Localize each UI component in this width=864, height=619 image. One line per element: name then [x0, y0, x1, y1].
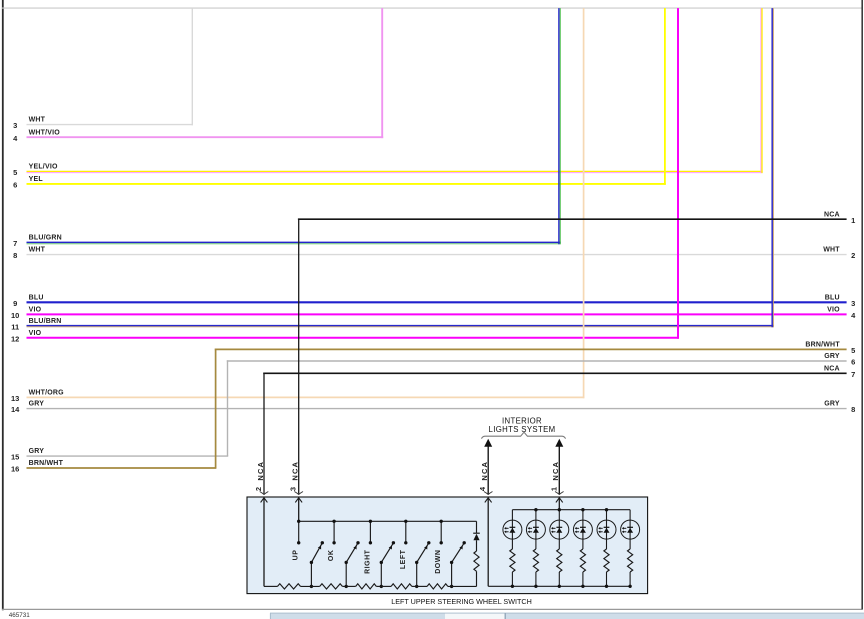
svg-text:VIO: VIO	[29, 307, 42, 314]
svg-text:WHT/ORG: WHT/ORG	[29, 390, 65, 397]
svg-text:13: 13	[11, 394, 19, 403]
svg-text:NCA: NCA	[480, 461, 489, 481]
svg-text:NCA: NCA	[291, 461, 300, 481]
svg-text:465731: 465731	[9, 612, 31, 619]
svg-text:6: 6	[13, 181, 17, 190]
svg-text:LIGHTS SYSTEM: LIGHTS SYSTEM	[489, 425, 556, 434]
svg-text:12: 12	[11, 334, 19, 343]
svg-text:3: 3	[289, 487, 298, 491]
svg-text:5: 5	[851, 346, 855, 355]
svg-text:BLU/BRN: BLU/BRN	[29, 318, 62, 325]
svg-text:WHT: WHT	[823, 247, 840, 254]
svg-text:LEFT UPPER STEERING WHEEL SWIT: LEFT UPPER STEERING WHEEL SWITCH	[391, 597, 532, 606]
svg-text:BLU: BLU	[825, 294, 840, 301]
svg-text:WHT/VIO: WHT/VIO	[29, 129, 61, 136]
svg-text:3: 3	[851, 299, 855, 308]
svg-text:6: 6	[851, 358, 855, 367]
svg-text:5: 5	[13, 168, 17, 177]
svg-text:BLU/GRN: BLU/GRN	[29, 235, 62, 242]
svg-text:VIO: VIO	[827, 307, 840, 314]
svg-text:9: 9	[13, 299, 17, 308]
svg-text:2: 2	[254, 487, 263, 491]
svg-text:1: 1	[549, 487, 558, 491]
svg-text:10: 10	[11, 311, 19, 320]
svg-text:DOWN: DOWN	[435, 550, 442, 574]
svg-text:14: 14	[11, 405, 20, 414]
svg-text:7: 7	[13, 239, 17, 248]
svg-text:NCA: NCA	[824, 365, 840, 372]
svg-text:7: 7	[851, 370, 855, 379]
svg-text:BRN/WHT: BRN/WHT	[805, 342, 840, 349]
svg-text:LEFT: LEFT	[400, 549, 407, 569]
svg-text:WHT: WHT	[29, 247, 46, 254]
svg-text:1: 1	[851, 216, 855, 225]
svg-text:GRY: GRY	[824, 401, 840, 408]
svg-text:YEL/VIO: YEL/VIO	[29, 164, 58, 171]
svg-text:GRY: GRY	[824, 353, 840, 360]
svg-text:GRY: GRY	[29, 401, 45, 408]
svg-text:16: 16	[11, 465, 19, 474]
svg-text:RIGHT: RIGHT	[364, 549, 371, 574]
svg-text:VIO: VIO	[29, 330, 42, 337]
svg-text:WHT: WHT	[29, 117, 46, 124]
svg-text:OK: OK	[328, 550, 335, 562]
svg-text:YEL: YEL	[29, 176, 44, 183]
svg-text:NCA: NCA	[256, 461, 265, 481]
svg-text:NCA: NCA	[824, 211, 840, 218]
svg-text:BLU: BLU	[29, 294, 44, 301]
svg-text:8: 8	[13, 251, 17, 260]
svg-text:2: 2	[851, 251, 855, 260]
svg-text:BRN/WHT: BRN/WHT	[29, 460, 64, 467]
svg-text:GRY: GRY	[29, 448, 45, 455]
svg-text:15: 15	[11, 453, 19, 462]
svg-text:3: 3	[13, 121, 17, 130]
svg-text:UP: UP	[293, 550, 300, 561]
svg-text:NCA: NCA	[551, 461, 560, 481]
svg-text:11: 11	[11, 323, 19, 332]
svg-text:8: 8	[851, 405, 855, 414]
